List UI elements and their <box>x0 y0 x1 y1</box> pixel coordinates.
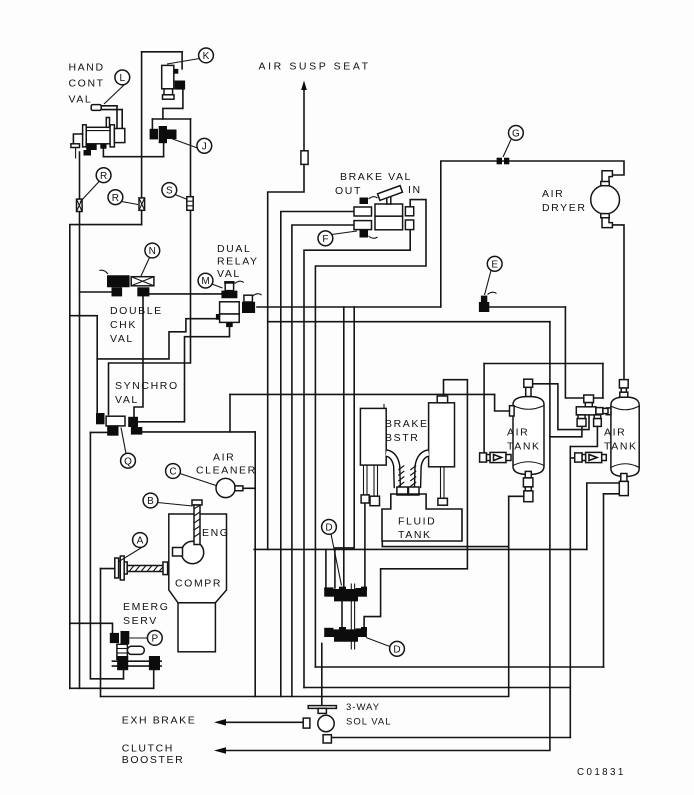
svg-text:VAL: VAL <box>69 94 93 106</box>
svg-text:TANK: TANK <box>398 529 432 541</box>
svg-text:CONT: CONT <box>69 78 105 90</box>
svg-text:VAL: VAL <box>115 394 139 406</box>
svg-text:AIR: AIR <box>213 452 235 464</box>
svg-text:OUT: OUT <box>335 185 362 197</box>
svg-text:K: K <box>203 51 210 62</box>
svg-text:COMPR: COMPR <box>175 578 222 590</box>
svg-text:F: F <box>322 234 328 245</box>
svg-text:DRYER: DRYER <box>542 202 587 214</box>
svg-text:P: P <box>151 634 158 645</box>
svg-text:SYNCHRO: SYNCHRO <box>115 380 179 392</box>
svg-text:BRAKE VAL: BRAKE VAL <box>340 171 412 183</box>
svg-text:SOL VAL: SOL VAL <box>346 717 392 728</box>
svg-text:N: N <box>149 246 156 257</box>
svg-text:AIR: AIR <box>507 427 529 439</box>
svg-text:L: L <box>120 73 126 84</box>
svg-text:TANK: TANK <box>507 441 541 453</box>
svg-text:G: G <box>512 129 520 140</box>
svg-text:FLUID: FLUID <box>398 516 436 528</box>
svg-text:E: E <box>491 259 498 270</box>
svg-text:AIR SUSP SEAT: AIR SUSP SEAT <box>259 61 371 73</box>
svg-text:M: M <box>201 276 209 287</box>
svg-text:3-WAY: 3-WAY <box>346 702 380 713</box>
svg-text:VAL: VAL <box>110 333 134 345</box>
svg-text:DUAL: DUAL <box>217 243 251 255</box>
svg-text:EXH BRAKE: EXH BRAKE <box>122 715 197 727</box>
svg-text:VAL: VAL <box>217 268 241 280</box>
svg-text:BOOSTER: BOOSTER <box>122 754 185 766</box>
svg-text:SERV: SERV <box>123 615 158 627</box>
svg-text:TANK: TANK <box>604 441 638 453</box>
svg-text:CLUTCH: CLUTCH <box>122 743 174 755</box>
svg-text:HAND: HAND <box>69 62 105 74</box>
svg-text:C01831: C01831 <box>577 767 626 778</box>
svg-text:EMERG: EMERG <box>123 601 170 613</box>
svg-text:R: R <box>112 193 119 204</box>
svg-text:A: A <box>137 536 144 547</box>
svg-text:D: D <box>325 523 332 534</box>
svg-text:D: D <box>393 644 400 655</box>
svg-text:BRAKE: BRAKE <box>385 418 429 430</box>
svg-text:S: S <box>166 186 173 197</box>
svg-text:C: C <box>169 467 176 478</box>
svg-text:AIR: AIR <box>604 427 626 439</box>
svg-text:J: J <box>202 141 207 152</box>
svg-text:R: R <box>100 171 107 182</box>
svg-text:CLEANER: CLEANER <box>196 465 257 477</box>
svg-text:DOUBLE: DOUBLE <box>110 305 163 317</box>
svg-text:BSTR: BSTR <box>385 432 419 444</box>
svg-text:Q: Q <box>124 456 132 467</box>
svg-text:IN: IN <box>408 184 422 196</box>
svg-text:CHK: CHK <box>110 319 137 331</box>
svg-text:AIR: AIR <box>542 188 564 200</box>
svg-text:ENG: ENG <box>202 527 230 539</box>
svg-text:B: B <box>147 496 154 507</box>
svg-text:RELAY: RELAY <box>217 256 259 268</box>
